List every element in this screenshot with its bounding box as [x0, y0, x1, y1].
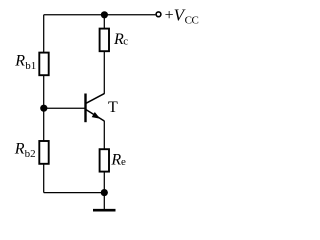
- resistor R_c body: [100, 29, 109, 52]
- transistor T emitter diagonal: [86, 110, 104, 121]
- svg-text:c: c: [123, 36, 128, 48]
- svg-text:R: R: [14, 53, 25, 70]
- transistor T base bar: [84, 94, 86, 123]
- resistor R_b1 body: [39, 53, 48, 76]
- junction dot at base divider node: [40, 105, 47, 112]
- wire left vertical rail: [43, 15, 45, 193]
- svg-text:R: R: [14, 140, 25, 157]
- junction dot at bottom rail / emitter branch: [101, 189, 108, 196]
- resistor R_e body: [100, 149, 109, 171]
- junction dot at top rail / Rc branch: [101, 11, 108, 18]
- VCC open terminal circle: [156, 12, 161, 17]
- transistor T emitter arrow: [92, 112, 101, 119]
- svg-text:CC: CC: [185, 14, 199, 26]
- wire emitter branch vertical (emitter corner to Re to bottom node and ground): [103, 121, 105, 210]
- svg-text:+: +: [165, 7, 174, 24]
- transistor T collector diagonal: [86, 94, 104, 104]
- svg-text:b2: b2: [25, 148, 36, 160]
- svg-text:T: T: [108, 99, 118, 116]
- resistor R_b2 body: [39, 141, 48, 164]
- svg-text:e: e: [121, 156, 126, 168]
- svg-text:R: R: [110, 152, 121, 169]
- wire base connection from divider node to transistor base bar: [44, 107, 85, 109]
- svg-text:b1: b1: [25, 60, 36, 72]
- ground: [93, 209, 116, 212]
- wire bottom rail: [44, 192, 105, 194]
- wire collector branch vertical (top rail to Rc, Rc to collector corner): [103, 15, 105, 94]
- wire top rail from left corner to VCC terminal: [44, 14, 156, 16]
